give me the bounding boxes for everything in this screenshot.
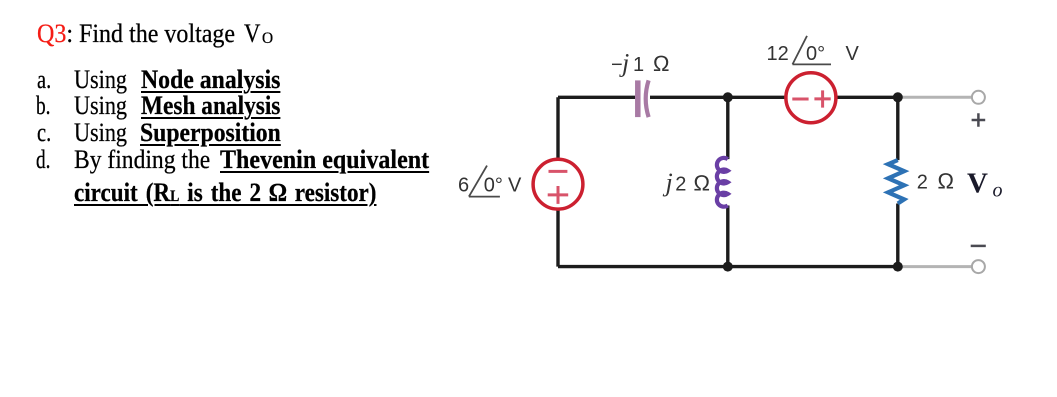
svg-text:V: V	[846, 43, 860, 65]
svg-text:Ω: Ω	[693, 171, 710, 196]
svg-text:o: o	[993, 180, 1003, 202]
svg-text:1: 1	[633, 54, 644, 76]
svg-text:−: −	[611, 54, 623, 76]
svg-text:Ω: Ω	[653, 51, 670, 76]
svg-text:Ω: Ω	[937, 168, 954, 193]
svg-text:12: 12	[767, 43, 789, 65]
svg-text:j: j	[663, 168, 673, 197]
svg-text:0°: 0°	[484, 174, 503, 196]
svg-text:2: 2	[917, 171, 928, 193]
svg-text:0°: 0°	[806, 43, 825, 65]
svg-text:V: V	[967, 168, 988, 200]
svg-text:V: V	[508, 174, 522, 196]
svg-text:2: 2	[675, 174, 686, 196]
svg-text:6: 6	[458, 174, 469, 196]
